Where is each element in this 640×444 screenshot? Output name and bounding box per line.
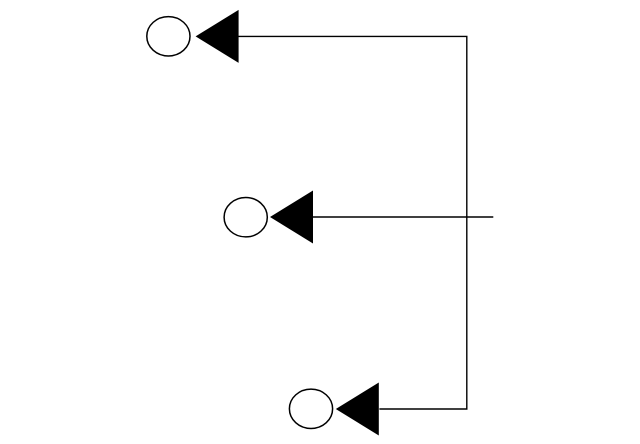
node circle 1 (top) xyxy=(147,17,190,56)
wire: bottom horizontal xyxy=(379,408,467,410)
arrowhead 1 (top) xyxy=(196,10,239,63)
wire: middle horizontal with stub past bus xyxy=(313,216,494,218)
node circle 2 (middle) xyxy=(224,198,267,237)
wire: vertical bus xyxy=(466,36,468,409)
wire: top horizontal xyxy=(238,35,467,37)
node circle 3 (bottom) xyxy=(289,389,332,428)
arrowhead 2 (middle) xyxy=(270,191,313,244)
arrowhead 3 (bottom) xyxy=(336,383,379,436)
